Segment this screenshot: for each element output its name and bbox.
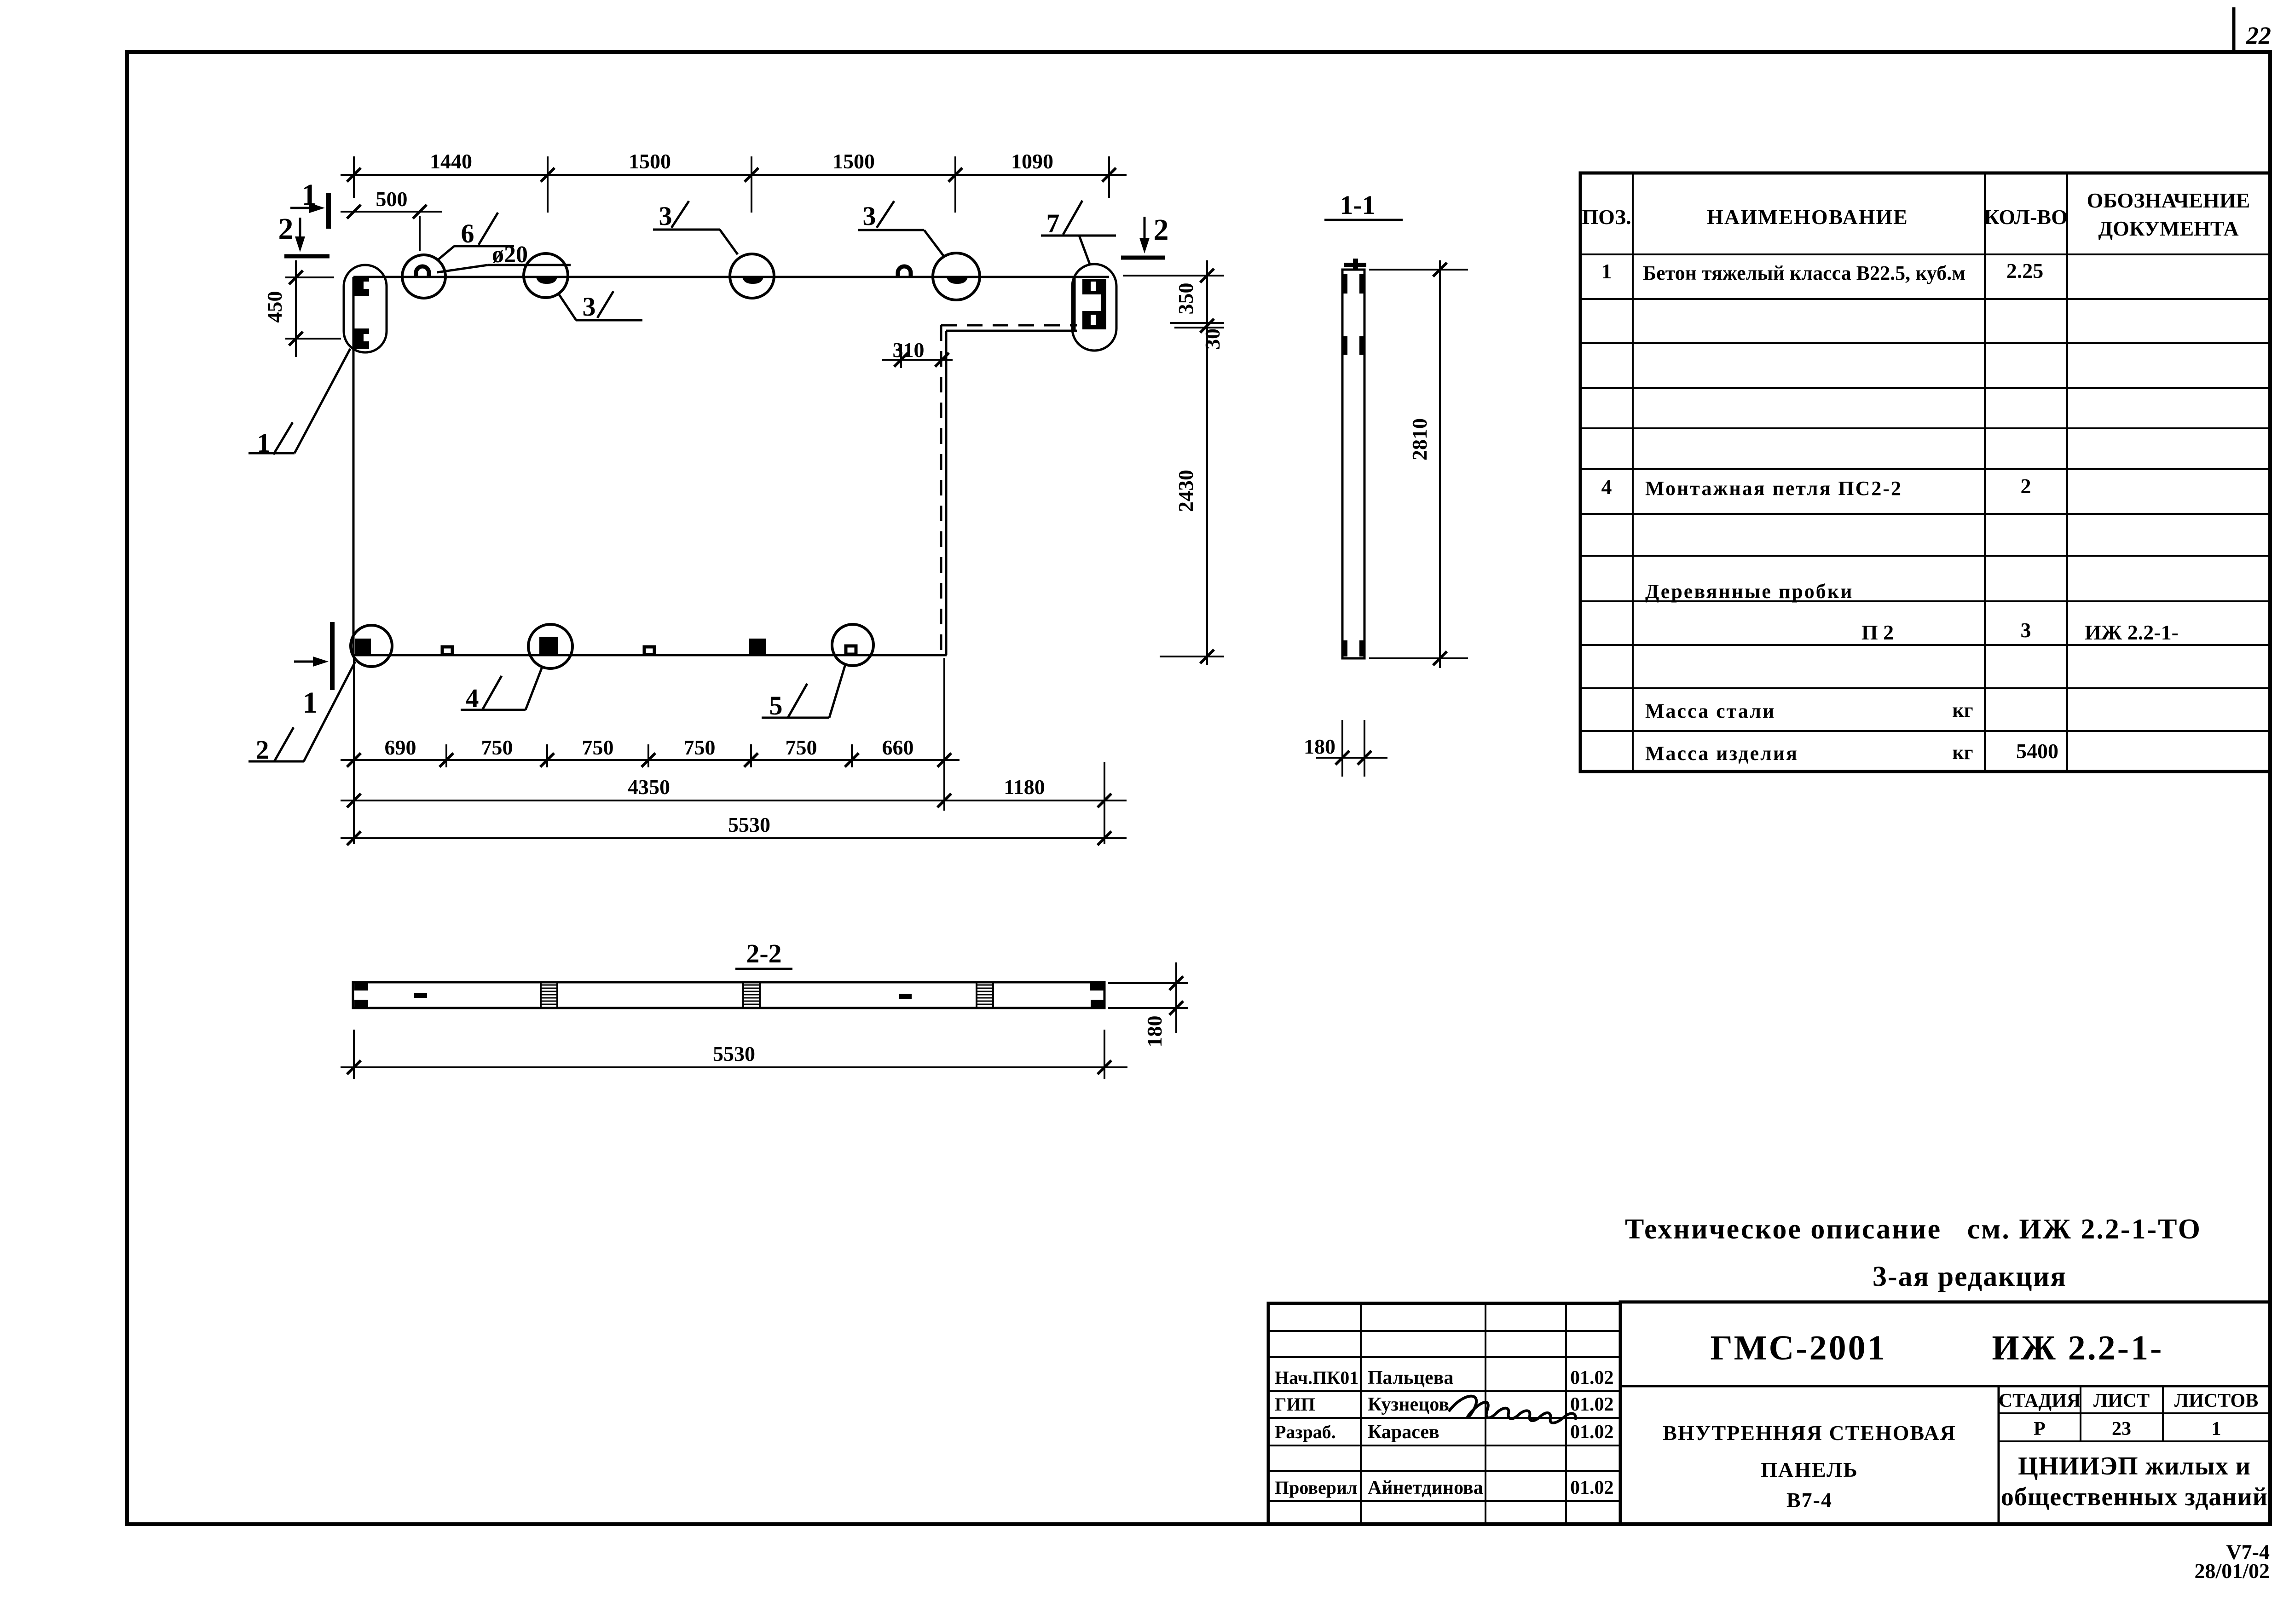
footer code V7-4 xyxy=(2226,1540,2270,1564)
callout label 3/ (below first circle) xyxy=(558,291,642,322)
signature row Нач.ПК01 xyxy=(1275,1367,1614,1388)
panel bottom edge xyxy=(353,654,947,657)
svg-text:750: 750 xyxy=(684,736,716,759)
svg-text:ø20: ø20 xyxy=(492,242,528,268)
mounting loop PS2-2 left xyxy=(416,266,429,278)
svg-text:1: 1 xyxy=(1601,259,1612,283)
dimension 310 (recess) xyxy=(882,338,953,368)
svg-text:КОЛ-ВО: КОЛ-ВО xyxy=(1984,205,2068,229)
svg-text:кг: кг xyxy=(1952,741,1973,764)
dimension row 690/750x4/660 xyxy=(341,658,960,844)
svg-text:Монтажная петля ПС2-2: Монтажная петля ПС2-2 xyxy=(1645,477,1902,500)
callout circle item 5 (bottom) xyxy=(832,624,873,666)
svg-text:4: 4 xyxy=(1601,475,1612,499)
wooden plug hatch 2 (2-2) xyxy=(743,982,760,1008)
mounting loop PS2-2 right xyxy=(898,266,911,278)
svg-text:2810: 2810 xyxy=(1408,418,1431,461)
embedded part top (left end) xyxy=(354,276,369,296)
callout circle item 4 (bottom) xyxy=(528,624,572,668)
signature squiggle xyxy=(1449,1396,1576,1423)
signature row Проверил xyxy=(1275,1477,1614,1498)
embedded part bottom (left end) xyxy=(354,328,369,349)
callout label 3/ (above second circle) xyxy=(653,201,738,254)
document codes ГМС-2001 / ИЖ 2.2-1- xyxy=(1710,1329,2163,1367)
svg-text:750: 750 xyxy=(786,736,817,759)
dimension 5530 (section 2-2) xyxy=(341,1030,1127,1079)
table row 1 concrete xyxy=(1601,259,2044,284)
note: technical description reference xyxy=(1625,1214,2202,1245)
dimension 2810 xyxy=(1369,260,1468,668)
svg-text:500: 500 xyxy=(376,187,408,211)
svg-text:Техническое описание см. ИЖ: Техническое описание см. ИЖ 2.2-1-ТО xyxy=(1625,1214,2202,1245)
table row wooden plugs xyxy=(1645,580,1853,603)
label dia 20 xyxy=(437,242,571,272)
svg-text:3: 3 xyxy=(659,201,672,231)
section 2-2 title xyxy=(735,939,792,969)
callout label 1/ xyxy=(249,349,350,458)
section 1-1 title xyxy=(1324,190,1403,220)
svg-text:2430: 2430 xyxy=(1174,470,1197,512)
svg-text:ЛИСТОВ: ЛИСТОВ xyxy=(2174,1390,2258,1411)
svg-text:5530: 5530 xyxy=(728,813,770,836)
section mark 1 (top) xyxy=(290,178,329,229)
svg-text:2: 2 xyxy=(256,735,269,765)
svg-text:1500: 1500 xyxy=(832,150,875,173)
dimension row 4350/1180 xyxy=(341,762,1127,844)
svg-text:2: 2 xyxy=(1154,213,1169,247)
svg-text:В7-4: В7-4 xyxy=(1786,1488,1832,1512)
svg-text:Масса стали: Масса стали xyxy=(1645,700,1775,722)
table row steel mass xyxy=(1645,699,1973,722)
dimension 350/30/2430 xyxy=(1123,260,1224,665)
callout label 3/ (above third circle) xyxy=(858,201,944,256)
section mark 2 (top right) xyxy=(1121,213,1169,258)
svg-text:5530: 5530 xyxy=(713,1042,755,1065)
organization name xyxy=(2001,1452,2268,1511)
svg-text:Карасев: Карасев xyxy=(1368,1422,1439,1443)
svg-text:180: 180 xyxy=(1304,735,1335,758)
svg-text:3-ая редакция: 3-ая редакция xyxy=(1873,1261,2067,1292)
section 2-2 left end caps xyxy=(354,983,368,1007)
svg-text:Пальцева: Пальцева xyxy=(1368,1367,1453,1388)
mini table headers xyxy=(1999,1390,2258,1411)
svg-text:НАИМЕНОВАНИЕ: НАИМЕНОВАНИЕ xyxy=(1707,205,1908,229)
wooden plug hatch 3 (2-2) xyxy=(977,982,993,1008)
callout label 5/ xyxy=(762,664,845,720)
table header ОБОЗНАЧЕНИЕ ДОКУМЕНТА xyxy=(2087,189,2250,240)
svg-text:ГИП: ГИП xyxy=(1275,1394,1315,1415)
wooden plug mark in circle 4 (black) xyxy=(539,637,558,654)
svg-text:1500: 1500 xyxy=(629,150,671,173)
svg-text:180: 180 xyxy=(1143,1016,1166,1048)
svg-text:ИЖ 2.2-1-: ИЖ 2.2-1- xyxy=(1992,1329,2164,1367)
svg-text:1: 1 xyxy=(303,686,318,720)
svg-text:01.02: 01.02 xyxy=(1570,1367,1614,1388)
recess corner vertical edge (dashed hidden line) xyxy=(940,325,942,655)
dimension row 1440/1500/1500/1090 xyxy=(341,150,1127,213)
svg-text:1180: 1180 xyxy=(1004,775,1045,799)
svg-text:ПОЗ.: ПОЗ. xyxy=(1582,205,1631,229)
signature row ГИП xyxy=(1275,1394,1614,1415)
svg-text:01.02: 01.02 xyxy=(1570,1422,1614,1443)
product name xyxy=(1663,1421,1956,1512)
svg-text:750: 750 xyxy=(582,736,614,759)
svg-text:690: 690 xyxy=(385,736,416,759)
svg-text:350: 350 xyxy=(1174,283,1197,315)
svg-text:23: 23 xyxy=(2112,1418,2131,1440)
callout label 7/ xyxy=(1041,201,1116,264)
section 1-1 thick walls middle xyxy=(1342,336,1364,355)
mini table values xyxy=(2034,1418,2221,1440)
table header КОЛ-ВО xyxy=(1984,205,2068,229)
svg-text:кг: кг xyxy=(1952,699,1973,721)
callout circle item 3 (first) xyxy=(524,253,568,298)
section 2-2 right end caps xyxy=(1090,983,1104,1007)
table row 4 mounting loop xyxy=(1601,474,2031,500)
section 2-2 panel strip outline xyxy=(353,982,1104,1008)
table header ПОЗ. xyxy=(1582,205,1631,229)
note: 3rd edition xyxy=(1873,1261,2067,1292)
svg-text:Разраб.: Разраб. xyxy=(1275,1422,1336,1442)
svg-text:2.25: 2.25 xyxy=(2006,259,2044,282)
svg-text:01.02: 01.02 xyxy=(1570,1394,1614,1415)
svg-text:2: 2 xyxy=(278,212,294,246)
title block signatures table grid xyxy=(1268,1303,1620,1524)
section mark 1 (bottom) xyxy=(294,622,332,720)
svg-text:Р: Р xyxy=(2034,1418,2046,1440)
callout circle item 3 (third) xyxy=(933,253,980,300)
detail capsule 7 (right end joint) xyxy=(1072,264,1116,351)
svg-text:7: 7 xyxy=(1046,208,1060,238)
panel top edge xyxy=(353,276,1109,278)
page number tick mark xyxy=(2232,7,2236,52)
section 1-1 panel outline xyxy=(1342,270,1364,658)
dimension 500 xyxy=(341,187,442,251)
svg-text:5: 5 xyxy=(769,691,783,720)
dimension row 5530 (plan) xyxy=(341,813,1127,845)
stage/sheet mini table xyxy=(1999,1386,2270,1441)
recess top edge (solid) xyxy=(946,330,1077,332)
title block main box xyxy=(1620,1302,2270,1524)
svg-text:ВНУТРЕННЯЯ СТЕНОВАЯ: ВНУТРЕННЯЯ СТЕНОВАЯ xyxy=(1663,1421,1956,1445)
panel left edge xyxy=(353,277,355,655)
svg-text:Нач.ПК01: Нач.ПК01 xyxy=(1275,1367,1358,1388)
svg-text:22: 22 xyxy=(2246,22,2271,49)
wooden plug mark middle (black) xyxy=(749,639,766,654)
svg-text:Кузнецов: Кузнецов xyxy=(1368,1394,1449,1415)
svg-text:ДОКУМЕНТА: ДОКУМЕНТА xyxy=(2098,217,2238,240)
svg-text:660: 660 xyxy=(882,736,914,759)
svg-text:ЛИСТ: ЛИСТ xyxy=(2093,1390,2150,1411)
section 1-1 thick walls bottom xyxy=(1342,640,1364,657)
svg-text:3: 3 xyxy=(583,292,596,322)
svg-text:750: 750 xyxy=(481,736,513,759)
svg-text:Бетон тяжелый класса В22.5, ку: Бетон тяжелый класса В22.5, куб.м xyxy=(1643,262,1965,284)
callout label 4/ xyxy=(461,667,542,713)
small open plug mark 1 on bottom edge xyxy=(442,647,452,655)
table row product mass xyxy=(1645,739,2058,765)
svg-text:Проверил: Проверил xyxy=(1275,1477,1357,1498)
dimension 180 (section 2-2) xyxy=(1108,962,1188,1048)
svg-text:3: 3 xyxy=(863,201,876,231)
callout circle item 6 (lifting loop) xyxy=(402,255,445,298)
recess corner vertical edge (solid) xyxy=(945,331,948,655)
svg-text:450: 450 xyxy=(263,291,286,323)
svg-text:ИЖ 2.2-1-: ИЖ 2.2-1- xyxy=(2085,621,2179,644)
svg-text:1-1: 1-1 xyxy=(1340,190,1375,220)
embedded bracket (right end) xyxy=(1082,279,1106,329)
dimension 450 (left side) xyxy=(263,260,341,357)
embedded dash mark 1 (2-2) xyxy=(414,993,427,998)
svg-text:общественных зданий: общественных зданий xyxy=(2001,1483,2268,1511)
title block right divider xyxy=(1998,1386,2000,1524)
wooden plug hatch 1 (2-2) xyxy=(541,982,557,1008)
svg-text:3: 3 xyxy=(2021,618,2031,642)
handwritten page number 22 xyxy=(2246,22,2271,49)
svg-text:ПАНЕЛЬ: ПАНЕЛЬ xyxy=(1761,1458,1858,1481)
specification table grid xyxy=(1580,173,2270,772)
svg-text:ГМС-2001: ГМС-2001 xyxy=(1710,1329,1886,1367)
small open plug mark 2 on bottom edge xyxy=(644,647,654,655)
panel right end inner vertical edge xyxy=(1074,277,1076,331)
callout label 6/ xyxy=(437,213,514,260)
callout circle item 3 (second) xyxy=(730,254,774,298)
section 1-1 mounting loop top xyxy=(1344,259,1366,271)
embedded dash mark 2 (2-2) xyxy=(899,994,912,999)
callout circle item 2 (bottom left corner) xyxy=(351,625,392,667)
svg-text:4: 4 xyxy=(466,683,479,713)
svg-text:СТАДИЯ: СТАДИЯ xyxy=(1999,1390,2081,1411)
svg-text:Масса изделия: Масса изделия xyxy=(1645,742,1798,765)
table header НАИМЕНОВАНИЕ xyxy=(1707,205,1908,229)
callout label 2/ xyxy=(249,662,355,765)
svg-text:2: 2 xyxy=(2021,474,2031,498)
svg-text:6: 6 xyxy=(461,219,474,248)
svg-text:28/01/02: 28/01/02 xyxy=(2194,1559,2270,1583)
svg-text:П 2: П 2 xyxy=(1861,621,1894,644)
svg-text:4350: 4350 xyxy=(628,775,670,799)
svg-text:ОБОЗНАЧЕНИЕ: ОБОЗНАЧЕНИЕ xyxy=(2087,189,2250,212)
recess top edge (dashed hidden line) xyxy=(941,324,1077,327)
svg-text:ЦНИИЭП жилых и: ЦНИИЭП жилых и xyxy=(2018,1452,2251,1480)
section mark 2 (top left) xyxy=(278,212,330,256)
svg-text:01.02: 01.02 xyxy=(1570,1477,1614,1498)
svg-text:2-2: 2-2 xyxy=(746,939,781,968)
svg-text:1090: 1090 xyxy=(1011,150,1053,173)
svg-text:Деревянные пробки: Деревянные пробки xyxy=(1645,580,1853,603)
wooden plug mark bottom-left (black) xyxy=(355,639,371,654)
detail capsule 1 (left end joint) xyxy=(344,265,387,352)
section 1-1 thick walls top xyxy=(1342,274,1364,294)
footer date xyxy=(2194,1559,2270,1583)
signature row Разраб. xyxy=(1275,1422,1614,1443)
svg-text:1: 1 xyxy=(2212,1418,2221,1440)
svg-text:310: 310 xyxy=(893,338,925,362)
svg-text:30: 30 xyxy=(1201,328,1224,350)
dimension 180 (section 1-1) xyxy=(1304,720,1387,777)
table row П 2 xyxy=(1861,618,2179,644)
svg-text:5400: 5400 xyxy=(2016,739,2058,763)
small open plug mark in circle 5 xyxy=(846,646,856,654)
svg-text:Айнетдинова: Айнетдинова xyxy=(1368,1477,1483,1498)
svg-text:1440: 1440 xyxy=(430,150,472,173)
